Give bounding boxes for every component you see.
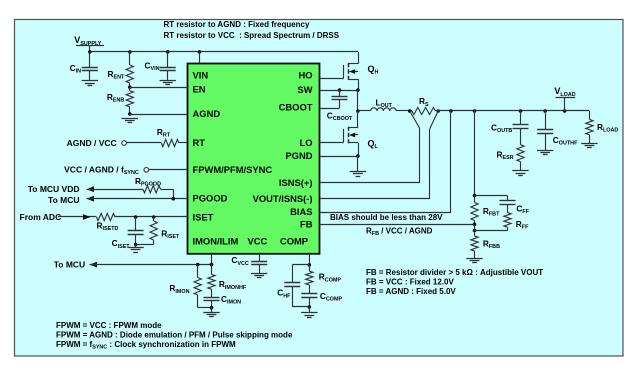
label RENB xyxy=(107,92,124,104)
label AGND / VCC xyxy=(67,138,117,148)
transistor QL xyxy=(348,127,358,144)
wire supply rail xyxy=(90,51,358,53)
svg-text:ISET: ISET xyxy=(193,211,214,222)
junction LOUT node xyxy=(356,109,360,113)
junction rail-VIN xyxy=(198,50,202,54)
label CVCC xyxy=(231,255,248,267)
junction rail-CIN xyxy=(88,50,92,54)
label RPGOOD xyxy=(135,176,161,188)
label QH xyxy=(368,64,379,76)
wire FB xyxy=(320,224,475,226)
junction rail-CVIN xyxy=(166,50,170,54)
wire ISNS+ sense xyxy=(320,111,420,183)
capacitor CVCC xyxy=(251,254,267,273)
svg-text:FB = Resistor divider > 5 kΩ :: FB = Resistor divider > 5 kΩ : Adjustibl… xyxy=(366,268,543,277)
junction SW node xyxy=(356,88,360,92)
svg-text:LO: LO xyxy=(299,137,312,148)
svg-text:FPWM = fSYNC : Clock synchroni: FPWM = fSYNC : Clock synchronization in … xyxy=(56,340,236,351)
pin label FPWM/PFM/SYNC xyxy=(193,164,273,175)
svg-text:ISNS(+): ISNS(+) xyxy=(279,177,313,188)
IC U1 buck controller block xyxy=(188,64,320,254)
note FPWM line3 xyxy=(56,340,236,351)
wire QL drain xyxy=(357,111,359,127)
label RISET xyxy=(161,229,180,241)
wire FF branch bottom xyxy=(475,227,508,230)
svg-text:FPWM = VCC : FPWM mode: FPWM = VCC : FPWM mode xyxy=(56,321,162,330)
wire QL source xyxy=(358,143,360,156)
label RIMONHF xyxy=(219,279,247,291)
junction IMON pin node xyxy=(210,263,214,267)
resistor RISETD xyxy=(97,213,116,220)
svg-text:FPWM/PFM/SYNC: FPWM/PFM/SYNC xyxy=(193,164,273,175)
label CIMON xyxy=(221,294,241,306)
node RT input terminal xyxy=(122,141,127,146)
wire RIMON bottom xyxy=(198,307,212,309)
pin label FB xyxy=(300,219,313,230)
ground COUTHF xyxy=(537,151,553,155)
wire VIN drop xyxy=(199,52,201,64)
junction COMP top xyxy=(308,263,312,267)
pin label BIAS xyxy=(290,206,312,217)
ground RENB xyxy=(122,119,138,123)
svg-text:SW: SW xyxy=(297,84,312,95)
svg-text:AGND: AGND xyxy=(193,108,221,119)
label QL xyxy=(368,138,379,150)
junction AGND node xyxy=(128,112,132,116)
svg-text:EN: EN xyxy=(193,84,206,95)
capacitor CVIN xyxy=(160,52,176,81)
wire QH drain xyxy=(358,52,360,64)
pin label PGND xyxy=(285,150,312,161)
label RS xyxy=(419,96,429,108)
label RRT xyxy=(157,127,171,139)
ground RFBB xyxy=(466,259,482,263)
note FB line2 xyxy=(366,277,454,286)
pin label HO xyxy=(298,69,312,80)
ground PGND xyxy=(350,156,366,177)
wire CBOOT xyxy=(320,108,340,110)
junction out-FB xyxy=(473,109,477,113)
note FPWM line1 xyxy=(56,321,162,330)
capacitor CFF xyxy=(500,201,516,213)
resistor RCOMP xyxy=(306,265,313,285)
capacitor CIN xyxy=(82,52,98,81)
label RFF xyxy=(516,219,529,231)
label COUTHF xyxy=(553,135,578,147)
resistor RENT xyxy=(126,52,133,87)
pin label EN xyxy=(193,84,206,95)
label CHF xyxy=(277,288,291,300)
wire BIAS xyxy=(320,111,451,213)
wire LO gate xyxy=(320,129,344,143)
wire EN xyxy=(130,87,188,89)
arrow From ADC xyxy=(83,214,91,220)
transistor QH xyxy=(348,63,358,79)
svg-text:FPWM = AGND : Diode emulation: FPWM = AGND : Diode emulation / PFM / Pu… xyxy=(56,330,293,339)
svg-text:BIAS should be less than 28V: BIAS should be less than 28V xyxy=(330,213,443,222)
pin label RT xyxy=(193,137,206,148)
wire ISET left xyxy=(58,216,97,218)
pin label VCC xyxy=(248,236,268,247)
svg-text:HO: HO xyxy=(298,69,312,80)
label LOUT xyxy=(376,97,393,109)
label RLOAD xyxy=(597,122,618,134)
svg-text:BIAS: BIAS xyxy=(290,206,312,217)
svg-text:FB: FB xyxy=(300,219,313,230)
label RENT xyxy=(108,69,125,81)
wire COMP pin drop xyxy=(309,254,311,265)
ground COMP xyxy=(301,307,317,318)
junction PGOOD node xyxy=(172,197,176,201)
svg-text:PGOOD: PGOOD xyxy=(193,193,228,204)
svg-text:From ADC: From ADC xyxy=(20,212,62,222)
capacitor CCBOOT xyxy=(332,90,348,108)
wire PGND xyxy=(320,156,359,158)
wire FF branch top xyxy=(475,196,508,202)
arrow To MCU xyxy=(87,196,95,202)
svg-text:AGND / VCC: AGND / VCC xyxy=(67,138,117,148)
junction out-BIAS xyxy=(449,109,453,113)
label CCBOOT xyxy=(327,111,353,123)
junction SW-CBOOT xyxy=(338,88,342,92)
junction IMON-RIMON xyxy=(196,263,200,267)
resistor RISET xyxy=(150,217,157,244)
pin label AGND xyxy=(193,108,221,119)
wire FB node to branch xyxy=(474,224,476,230)
capacitor CHF xyxy=(284,265,300,307)
node FPWM input terminal xyxy=(144,168,149,173)
svg-text:PGND: PGND xyxy=(285,150,312,161)
svg-text:COMP: COMP xyxy=(280,236,308,247)
svg-text:FB = AGND : Fixed 5.0V: FB = AGND : Fixed 5.0V xyxy=(366,287,456,296)
wire RPGOOD top xyxy=(87,189,174,199)
resistor RESR xyxy=(517,145,524,171)
label To MCU xyxy=(48,195,79,205)
note RT resistor line1 xyxy=(164,20,311,29)
junction out-VLOAD xyxy=(563,109,567,113)
wire IMON pin drop xyxy=(211,254,213,265)
pin label LO xyxy=(299,137,312,148)
svg-text:VCC: VCC xyxy=(248,236,268,247)
resistor RFBT xyxy=(471,196,478,225)
label To MCU imon xyxy=(54,259,85,269)
pin label IMON/ILIM xyxy=(193,236,239,247)
capacitor COUTB xyxy=(513,111,529,145)
inductor LOUT xyxy=(371,108,397,111)
wire IMON row xyxy=(90,264,212,266)
svg-text:CBOOT: CBOOT xyxy=(279,102,313,113)
label CIN xyxy=(70,63,81,75)
label CISET xyxy=(112,238,131,250)
resistor RFF xyxy=(504,213,511,228)
capacitor CCOMP xyxy=(301,285,317,307)
label CVIN xyxy=(145,60,160,72)
junction ISET-RISET xyxy=(152,215,156,219)
ground RESR xyxy=(512,171,528,176)
wire CHF top xyxy=(292,264,309,266)
wire SW down to LOUT node xyxy=(357,90,359,111)
junction FB node xyxy=(473,223,477,227)
junction rail-RENT xyxy=(128,50,132,54)
resistor RIMON xyxy=(194,265,201,308)
wire VOUT/ISNS- sense xyxy=(320,111,439,199)
node VLOAD terminal xyxy=(554,86,575,111)
wire PGOOD xyxy=(87,198,188,200)
arrow To MCU imon xyxy=(90,262,98,268)
label RFBB xyxy=(483,239,500,251)
wire LOUT to RS xyxy=(396,110,412,112)
resistor RS xyxy=(412,107,436,114)
note RFB xyxy=(366,226,433,237)
svg-text:To MCU VDD: To MCU VDD xyxy=(28,184,80,194)
resistor RPGOOD xyxy=(143,186,161,193)
note FPWM line2 xyxy=(56,330,293,339)
label From ADC xyxy=(20,212,62,222)
label RCOMP xyxy=(319,272,342,284)
capacitor COUTHF xyxy=(537,111,553,150)
pin label SW xyxy=(297,84,312,95)
wire FPWM/PFM/SYNC xyxy=(149,169,188,171)
svg-text:To MCU: To MCU xyxy=(48,195,79,205)
wire ISET right xyxy=(115,216,188,218)
junction RFBT top xyxy=(473,194,477,198)
capacitor CISET xyxy=(128,217,144,244)
svg-text:FB = VCC : Fixed 12.0V: FB = VCC : Fixed 12.0V xyxy=(366,277,454,286)
resistor RENB xyxy=(126,87,133,114)
pin label ISNS(+) xyxy=(279,177,313,188)
wire output line xyxy=(435,110,589,112)
svg-text:To MCU: To MCU xyxy=(54,259,85,269)
junction out-COUTB xyxy=(519,109,523,113)
ground CVIN xyxy=(160,81,176,85)
junction ISET-CISET xyxy=(134,215,138,219)
junction IMON bottom xyxy=(210,306,214,310)
wire RISET bottom xyxy=(136,244,154,246)
junction COMP bottom xyxy=(308,305,312,309)
node VSUPPLY terminal xyxy=(74,35,104,52)
wire CHF bottom xyxy=(292,306,309,308)
capacitor CIMON xyxy=(204,289,220,308)
wire RT xyxy=(126,142,187,144)
pin label ISET xyxy=(193,211,214,222)
note FB line1 xyxy=(366,268,543,277)
ground CISET xyxy=(127,244,143,252)
label To MCU VDD xyxy=(28,184,80,194)
junction EN node xyxy=(128,85,132,89)
pin label COMP xyxy=(280,236,308,247)
note FB line3 xyxy=(366,287,456,296)
wire LOUT left lead xyxy=(358,110,371,112)
ground CIN xyxy=(82,81,98,86)
wire SW xyxy=(320,90,359,92)
label CCOMP xyxy=(320,291,343,303)
wire AGND xyxy=(130,114,188,116)
pin label CBOOT xyxy=(279,102,313,113)
resistor RRT xyxy=(161,139,179,146)
junction RS right xyxy=(436,109,440,113)
resistor RIMONHF xyxy=(208,265,215,290)
svg-text:RT: RT xyxy=(193,137,206,148)
svg-text:IMON/ILIM: IMON/ILIM xyxy=(193,236,239,247)
pin label VOUT/ISNS(-) xyxy=(253,193,313,204)
svg-text:RT resistor to VCC : Spread S: RT resistor to VCC : Spread Spectrum / D… xyxy=(164,31,340,40)
label RISETD xyxy=(97,220,119,232)
resistor RLOAD xyxy=(586,111,593,144)
label RIMON xyxy=(169,283,189,295)
svg-text:RT resistor to AGND : Fixed fr: RT resistor to AGND : Fixed frequency xyxy=(164,20,311,29)
junction PGND node xyxy=(356,154,360,158)
wire QH source to SW xyxy=(358,79,360,90)
junction CISET bottom xyxy=(134,243,138,247)
svg-text:VOUT/ISNS(-): VOUT/ISNS(-) xyxy=(253,193,313,204)
label RFBT xyxy=(483,206,500,218)
junction RS left xyxy=(408,109,412,113)
ground CVCC xyxy=(251,274,267,278)
note BIAS xyxy=(330,213,443,222)
arrow To MCU VDD xyxy=(87,186,95,192)
ground RLOAD xyxy=(581,144,597,148)
label RESR xyxy=(497,150,514,162)
svg-text:VIN: VIN xyxy=(193,69,209,80)
ground IMON xyxy=(203,308,219,317)
note RT resistor line2 xyxy=(164,31,340,40)
label COUTB xyxy=(491,122,512,134)
pin label VIN xyxy=(193,69,209,80)
wire FB divider drop xyxy=(474,111,476,196)
junction FF branch bottom xyxy=(473,229,477,233)
resistor RFBB xyxy=(471,231,478,259)
wire HO gate xyxy=(320,65,344,79)
pin label PGOOD xyxy=(193,193,228,204)
label CFF xyxy=(516,204,529,216)
junction out-COUTHF xyxy=(543,109,547,113)
label VCC / AGND / fSYNC xyxy=(64,165,139,177)
